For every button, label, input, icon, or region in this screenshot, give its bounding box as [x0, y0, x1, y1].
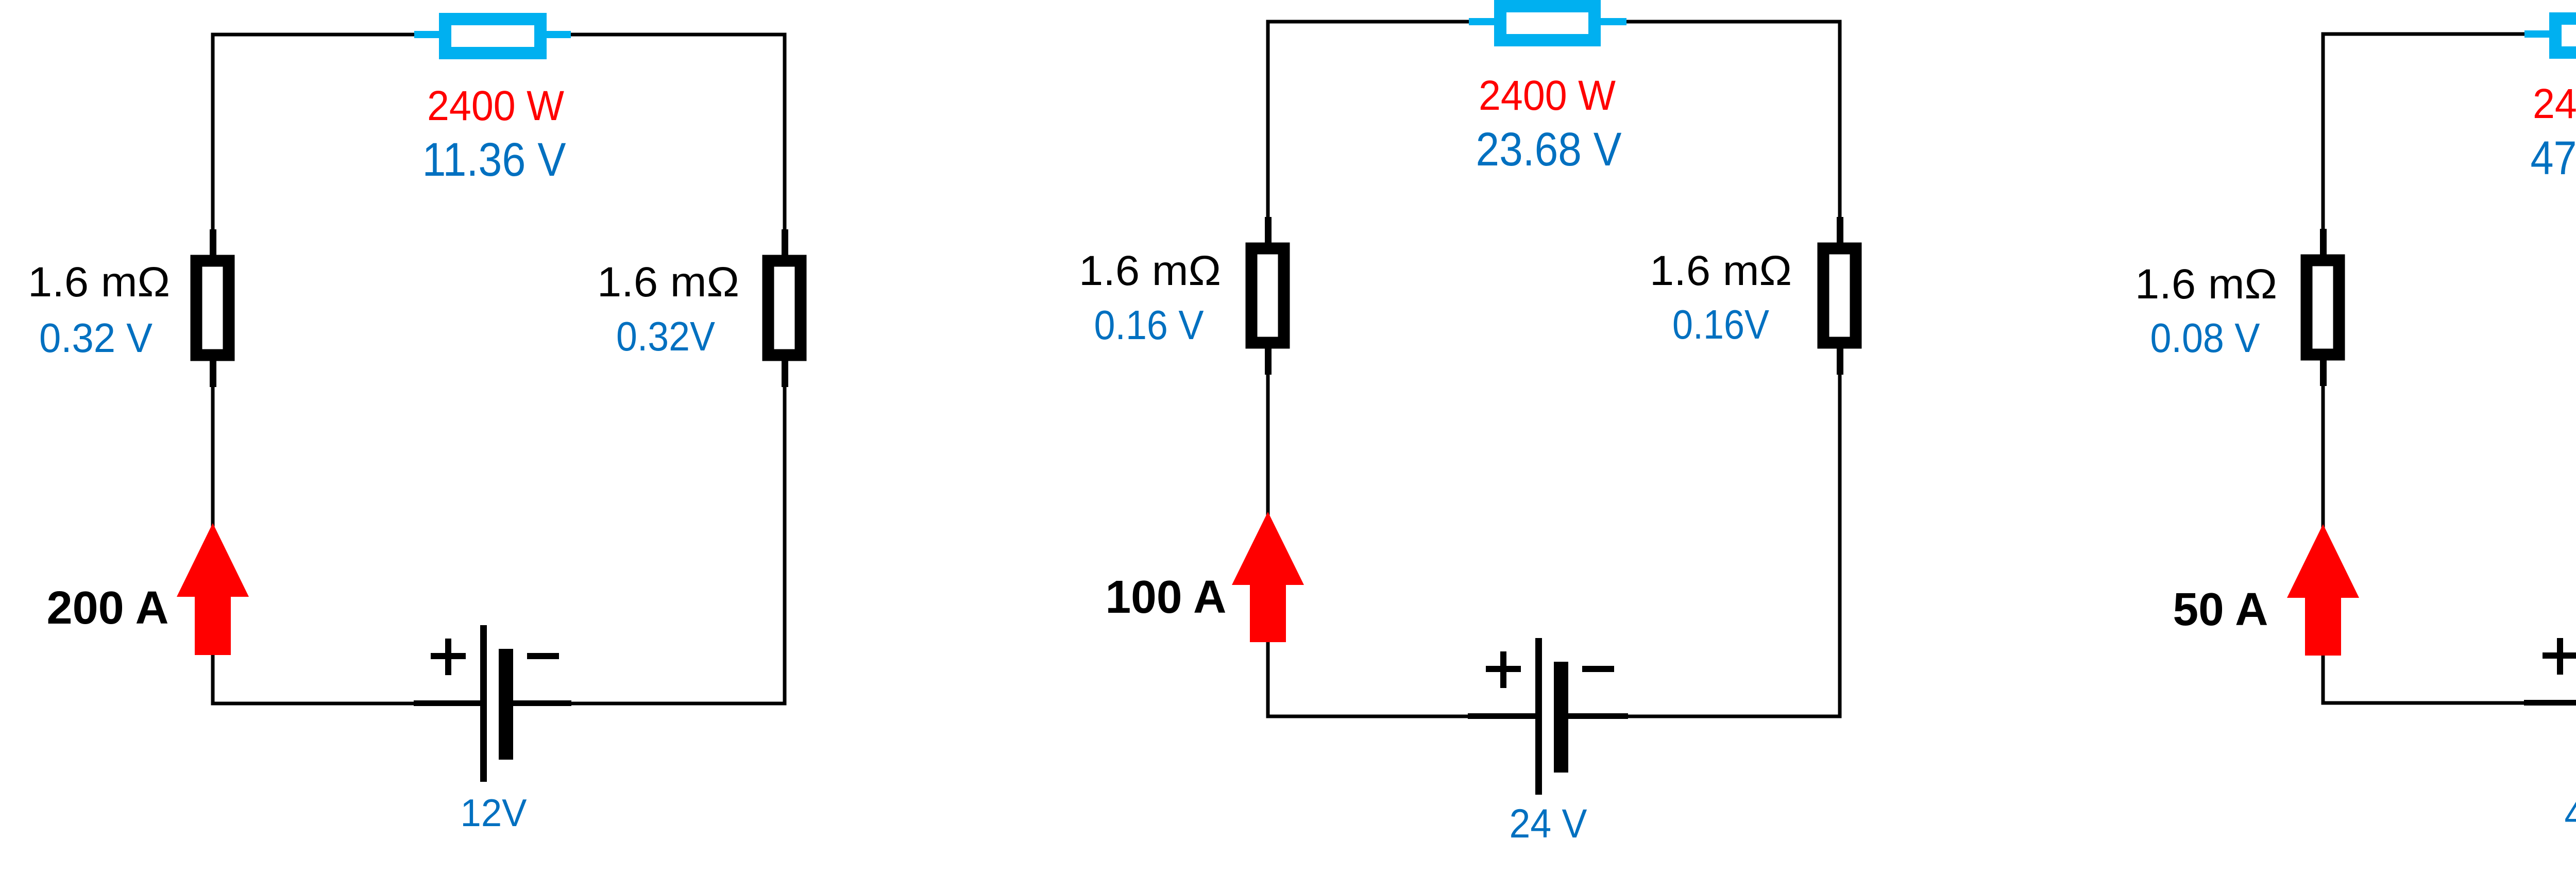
svg-text:12V: 12V: [461, 791, 527, 834]
svg-text:47.84 V: 47.84 V: [2531, 132, 2576, 185]
svg-text:24 V: 24 V: [1510, 800, 1587, 846]
svg-text:0.16V: 0.16V: [1672, 301, 1770, 347]
svg-text:1.6 mΩ: 1.6 mΩ: [28, 259, 170, 306]
svg-text:100 A: 100 A: [1106, 572, 1227, 623]
svg-text:50 A: 50 A: [2173, 584, 2268, 635]
svg-text:1.6 mΩ: 1.6 mΩ: [1079, 247, 1221, 294]
svg-text:2400 W: 2400 W: [2533, 80, 2576, 127]
svg-text:11.36 V: 11.36 V: [422, 133, 566, 186]
svg-text:0.32 V: 0.32 V: [39, 315, 153, 361]
svg-text:2400 W: 2400 W: [427, 82, 565, 129]
svg-text:1.6 mΩ: 1.6 mΩ: [597, 259, 739, 306]
svg-text:1.6 mΩ: 1.6 mΩ: [2135, 261, 2277, 308]
svg-text:1.6 mΩ: 1.6 mΩ: [1650, 247, 1792, 294]
svg-text:0.16 V: 0.16 V: [1094, 302, 1205, 348]
svg-text:2400 W: 2400 W: [1479, 72, 1616, 119]
svg-text:23.68 V: 23.68 V: [1476, 123, 1622, 176]
svg-text:200 A: 200 A: [47, 582, 169, 634]
svg-text:0.08 V: 0.08 V: [2150, 315, 2261, 361]
svg-text:0.32V: 0.32V: [616, 313, 716, 359]
svg-text:48 V: 48 V: [2565, 791, 2576, 837]
